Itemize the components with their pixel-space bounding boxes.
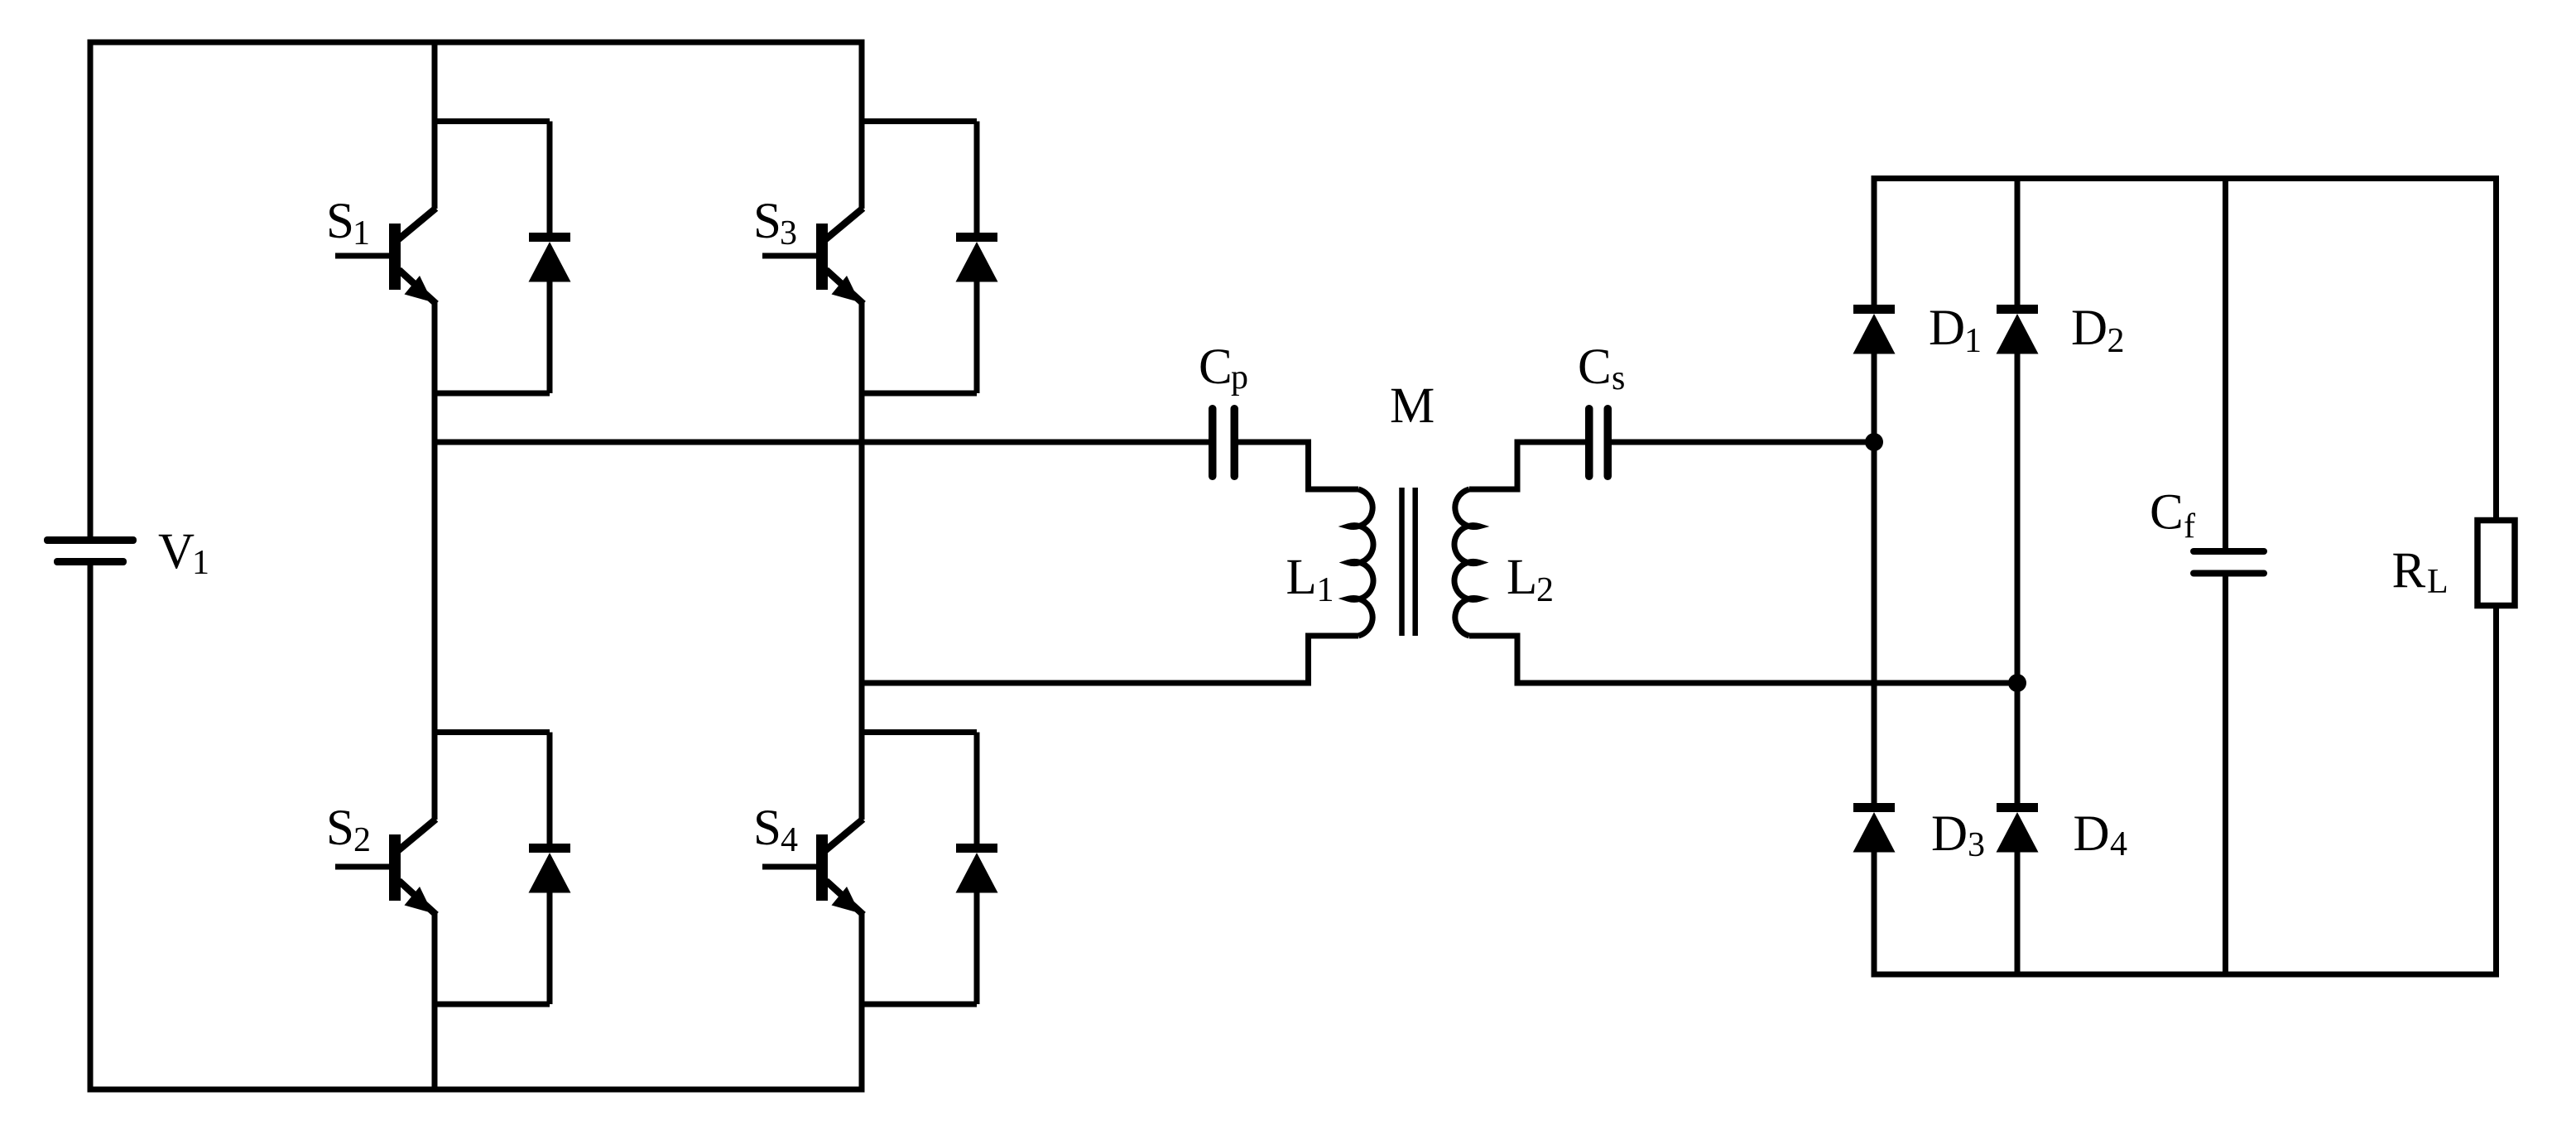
freewheeling diode of S4 [956, 844, 998, 893]
wire: S4 diode branch lower [974, 892, 980, 1004]
svg-text:R: R [2392, 543, 2426, 599]
diode D4 [1997, 803, 2039, 853]
wire: S3 diode branch lower [974, 281, 980, 393]
svg-text:D: D [2071, 301, 2107, 356]
wire: D1-D3 leg middle [1872, 353, 1877, 805]
svg-text:D: D [2074, 806, 2110, 862]
wire: right leg bottom (S4 emitter to bottom bus) [859, 912, 865, 1093]
svg-text:C: C [2150, 485, 2184, 541]
transistor S4 (IGBT) [762, 820, 863, 916]
wire: S2 diode branch upper [547, 733, 553, 845]
wire: D2-D4 leg middle [2015, 353, 2021, 805]
svg-text:V: V [158, 524, 195, 579]
transistor S2 (IGBT) [335, 820, 436, 916]
capacitor Cp [1209, 405, 1238, 480]
wire: S4 diode branch upper [974, 733, 980, 845]
wire: D2 leg upper [2015, 179, 2021, 305]
wire: S1 diode branch lower [547, 281, 553, 393]
wire: RL leg upper [2493, 176, 2499, 521]
svg-text:C: C [1578, 339, 1612, 395]
wire: S2 cell bottom branch [435, 1002, 550, 1007]
svg-text:D: D [1931, 806, 1968, 862]
wire: battery - down to bottom bus [88, 565, 94, 1093]
svg-text:L: L [2427, 563, 2449, 601]
svg-text:2: 2 [1536, 571, 1554, 609]
wire: left leg top (S1 collector feed) [432, 42, 438, 209]
wire: Cf leg lower [2223, 577, 2228, 975]
wire: S3 cell bottom branch [862, 391, 977, 397]
wire: S4 cell bottom branch [862, 1002, 977, 1007]
diode D3 [1853, 803, 1896, 853]
svg-text:D: D [1929, 301, 1965, 356]
wire: L2 bottom to rectifier input node B [1469, 636, 2017, 683]
diode D1 [1853, 305, 1896, 354]
wire: right leg top (S3 collector feed) [859, 40, 865, 209]
junction node: rectifier AC input bottom [2008, 674, 2026, 692]
svg-text:2: 2 [2107, 322, 2125, 360]
transformer core bars (mutual inductance M) [1402, 488, 1415, 636]
svg-text:S: S [753, 801, 781, 856]
svg-text:p: p [1231, 358, 1248, 397]
battery V1 [44, 536, 137, 565]
wire: rectifier top bus (DC+) [1874, 176, 2497, 181]
svg-text:f: f [2184, 507, 2195, 546]
wire: L2 top to capacitor Cs [1469, 442, 1585, 489]
wire: Cs to rectifier input node [1612, 440, 1874, 445]
wire: Cp to L1 top [1238, 442, 1358, 489]
inductor L1 (primary coil) [1348, 489, 1373, 636]
wire: S3 diode branch upper [974, 122, 980, 234]
wire: bottom DC bus [90, 1087, 862, 1093]
svg-text:1: 1 [1964, 322, 1982, 360]
transistor S3 (IGBT) [762, 209, 863, 305]
wire: left leg middle (S1 emitter to S2 collector) [432, 301, 438, 820]
diode D2 [1997, 305, 2039, 354]
wire: S3 cell top branch [862, 118, 977, 124]
freewheeling diode of S1 [529, 233, 571, 282]
svg-text:4: 4 [2110, 825, 2127, 863]
svg-text:S: S [326, 194, 354, 249]
wire: S2 diode branch lower [547, 892, 553, 1004]
svg-text:1: 1 [192, 544, 209, 582]
svg-text:L: L [1286, 550, 1317, 605]
wire: rectifier bottom bus (DC-) [1874, 972, 2497, 978]
wire: top DC bus [90, 40, 862, 46]
wire: S1 diode branch upper [547, 122, 553, 234]
svg-text:3: 3 [1968, 826, 1985, 864]
wire: D4 leg lower [2015, 852, 2021, 974]
svg-text:2: 2 [353, 821, 371, 859]
wire: S2 cell top branch [435, 729, 550, 735]
capacitor Cf [2194, 551, 2264, 574]
svg-text:s: s [1612, 359, 1625, 397]
wire: Cf leg upper [2223, 179, 2228, 550]
inductor L2 (secondary coil) [1454, 489, 1479, 636]
svg-text:1: 1 [353, 214, 370, 252]
freewheeling diode of S3 [956, 233, 998, 282]
wire: S4 cell top branch [862, 729, 977, 735]
transistor S1 (IGBT) [335, 209, 436, 305]
svg-text:M: M [1390, 378, 1435, 434]
wire: S1 cell bottom branch [435, 391, 550, 397]
wire: bridge output A to capacitor Cp [435, 440, 1209, 445]
wire: D1 leg upper [1872, 176, 1877, 305]
freewheeling diode of S2 [529, 844, 571, 893]
wire: D3 leg lower [1872, 852, 1877, 978]
svg-text:L: L [1507, 550, 1537, 605]
svg-text:C: C [1199, 339, 1233, 395]
wire: S1 cell top branch [435, 118, 550, 124]
svg-text:1: 1 [1317, 571, 1334, 609]
wire: RL leg lower [2493, 606, 2499, 978]
svg-text:3: 3 [780, 214, 797, 252]
wire: left leg bottom (S2 emitter to bottom bus) [432, 912, 438, 1089]
resistor RL (load) [2477, 521, 2515, 606]
wire: L1 bottom to bridge output B [862, 636, 1358, 683]
capacitor Cs [1585, 405, 1612, 480]
svg-text:S: S [753, 194, 781, 249]
wire: right leg middle (S3 emitter to S4 collector) [859, 301, 865, 820]
junction node: rectifier AC input top [1865, 433, 1883, 451]
svg-text:S: S [326, 801, 354, 856]
wire: left supply down to battery + [88, 40, 94, 537]
svg-text:4: 4 [781, 821, 798, 859]
